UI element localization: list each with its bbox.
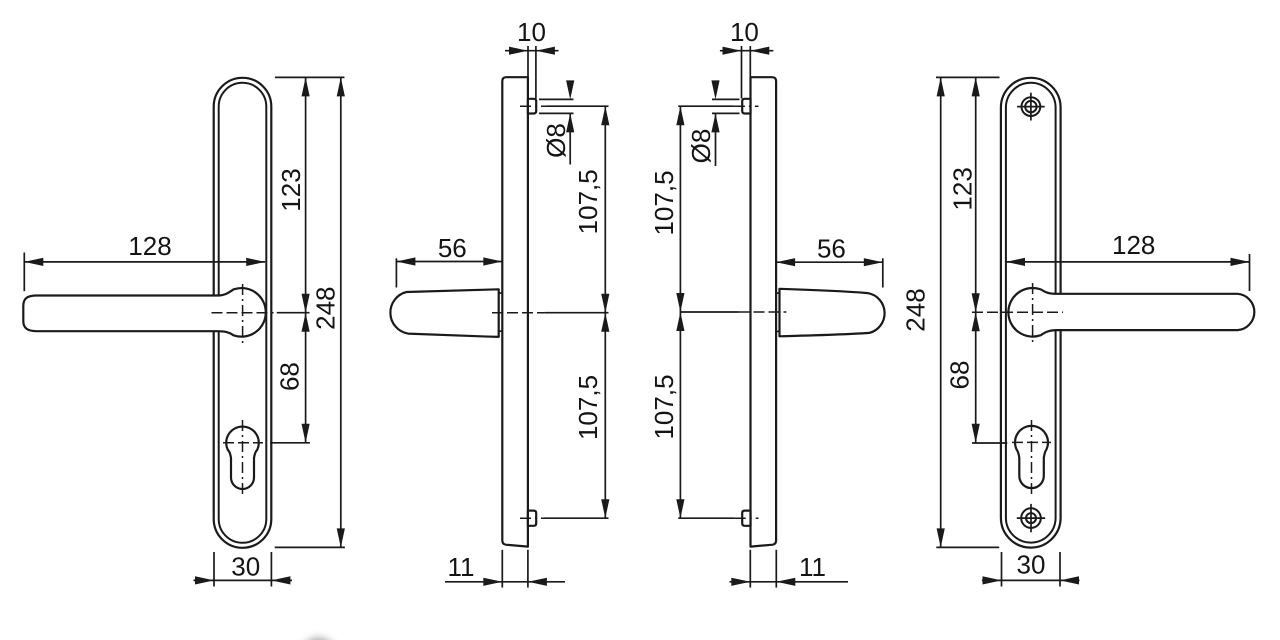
svg-text:128: 128 [1112,230,1155,260]
keyhole horizontal centerline view 4 [1012,441,1051,443]
dimension 107,5 lower view 3 [649,312,684,518]
svg-text:30: 30 [231,551,260,581]
svg-text:11: 11 [448,552,475,582]
dimension 107,5 upper view 3 [649,106,684,312]
svg-text:107,5: 107,5 [649,374,679,439]
lower fixing pin [742,511,750,526]
watermark blob [302,638,336,640]
handle centerline view 3 [680,311,738,313]
svg-text:107,5: 107,5 [649,170,679,235]
dimension 30 view 4 [982,550,1080,587]
handle grip profile [390,289,498,337]
lower pin centerline [520,517,544,519]
dimension 248 view 4 [901,77,1000,547]
handle boss vertical centerline view 4 [1032,283,1034,342]
backplate profile [502,77,528,546]
dimension 128 view 1 [24,231,265,291]
backplate profile [751,77,777,546]
top screw [1017,93,1045,121]
handle horizontal centerline [212,312,274,314]
svg-text:128: 128 [128,231,171,261]
svg-text:248: 248 [901,288,931,331]
svg-text:68: 68 [945,361,975,390]
lever handle view 4 [1008,288,1254,337]
dimension 56 view 2 [396,233,502,287]
backplate inner outline [1006,83,1056,543]
handle boss vertical centerline [242,284,244,343]
dimension 123 view 4 [948,77,980,312]
handle grip profile [780,289,885,337]
handle neck top line [776,292,779,294]
dimension 10 view 2 [505,17,559,99]
svg-text:Ø8: Ø8 [541,123,571,158]
dimension 10 view 3 [720,17,774,98]
top fixing pin [742,99,750,114]
svg-text:Ø8: Ø8 [686,129,716,164]
lower fixing pin [528,511,536,526]
svg-text:30: 30 [1017,550,1046,580]
handle neck bottom line [499,330,503,332]
dimension 123 view 1 [275,77,345,312]
svg-text:56: 56 [817,233,846,263]
lever handle [23,288,265,337]
lower pin centerline [678,517,735,519]
backplate outer outline [214,78,272,548]
handle horizontal centerline view 4 [972,311,1063,313]
dimension 107,5 lower view 2 [573,313,609,519]
euro cylinder keyhole view 4 [1015,426,1048,488]
backplate inner outline [219,83,267,543]
svg-text:107,5: 107,5 [573,375,603,440]
dimension 56 view 3 [776,233,883,287]
svg-text:10: 10 [517,17,546,47]
keyhole vertical centerline [242,420,244,495]
dimension 11 view 3 [730,550,849,588]
keyhole vertical centerline view 4 [1031,420,1033,494]
svg-text:123: 123 [276,168,306,211]
dimension 11 view 2 [445,550,565,588]
dimension 68 view 4 [945,312,1008,443]
dimension 68 view 1 [270,313,310,443]
dimension 30 view 1 [194,551,293,586]
svg-text:11: 11 [799,552,826,582]
svg-text:248: 248 [311,287,341,330]
top fixing pin [528,99,536,114]
svg-text:10: 10 [730,17,759,47]
top pin centerline [520,105,546,107]
top pin centerline [678,105,734,107]
handle centerline view 2 [492,312,545,314]
dimension 248 view 1 [275,77,345,547]
svg-text:68: 68 [275,362,305,391]
bottom screw [1017,504,1045,532]
dimension 107,5 upper view 2 [573,106,609,313]
handle neck bottom line [776,330,779,332]
keyhole horizontal centerline [223,442,263,444]
dimension diameter 8 view 2 [539,80,574,164]
backplate outer outline [1001,78,1061,548]
euro cylinder keyhole [226,427,259,489]
svg-text:56: 56 [438,233,467,263]
dimension 128 view 4 [1006,230,1250,291]
handle neck top line [499,292,503,294]
svg-text:107,5: 107,5 [573,169,603,234]
svg-text:123: 123 [948,167,978,210]
dimension diameter 8 view 3 [686,80,740,166]
